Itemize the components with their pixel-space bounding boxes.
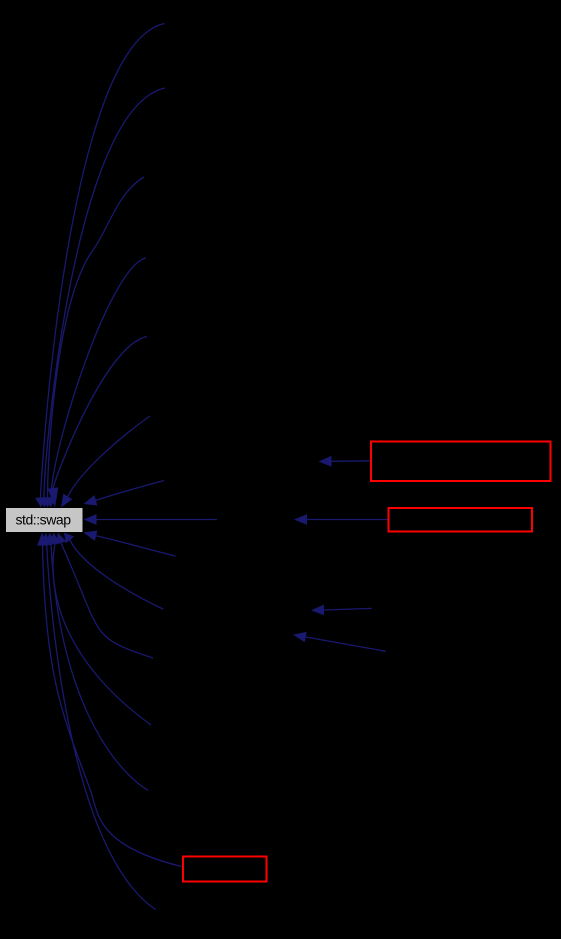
edge E15: caller node to std::swap: [41, 533, 155, 910]
edge E7: caller node to std::swap: [84, 481, 165, 506]
edge E12: caller node to std::swap: [50, 533, 151, 726]
edge E1: caller node to std::swap: [35, 24, 164, 508]
edge E11: caller node to std::swap: [56, 533, 153, 659]
edge fragment F4: second-level caller arrow: [293, 632, 386, 652]
edge E4: caller node to std::swap: [46, 258, 146, 508]
edge E10: caller node to std::swap: [64, 533, 163, 610]
edge fragment F3: second-level caller arrow: [311, 605, 372, 616]
edge fragment F1: second-level caller arrow: [319, 456, 371, 467]
edge E9: caller node to std::swap: [84, 531, 176, 557]
edge E2: caller node to std::swap: [39, 88, 165, 508]
node std::swap (current function): [6, 508, 83, 532]
edge E6: caller node to std::swap: [61, 416, 150, 508]
svg-text:std::swap: std::swap: [16, 512, 72, 528]
edge E13: caller node to std::swap: [46, 533, 149, 791]
node: red box 2 (truncated caller, black label invisible): [389, 508, 533, 532]
edge E14: caller node to std::swap: [37, 533, 181, 867]
node: red box 3 (truncated caller, black label invisible): [183, 857, 267, 882]
edge E3: caller node to std::swap: [42, 177, 144, 508]
edge E8: caller node to std::swap: [84, 514, 218, 525]
edge fragment F2: second-level caller arrow: [294, 514, 388, 525]
edge E5: caller node to std::swap: [48, 337, 147, 508]
node: red box 1 (truncated caller, black label invisible): [371, 442, 551, 482]
